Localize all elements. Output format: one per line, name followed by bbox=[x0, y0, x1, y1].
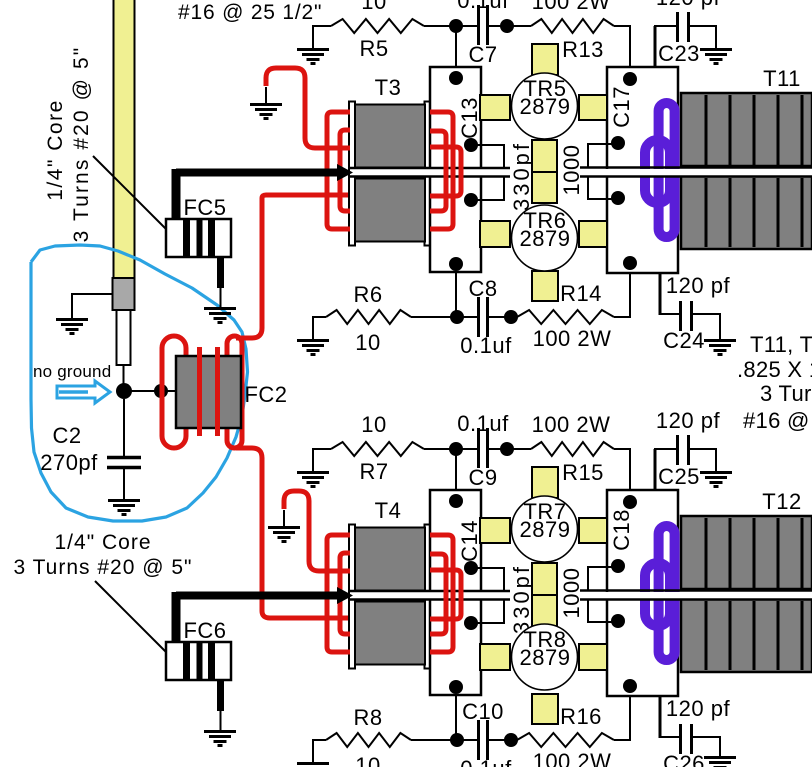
ground R7 left bbox=[297, 473, 329, 487]
capacitor C25 plates bbox=[678, 435, 689, 465]
coax braid gray section bbox=[113, 278, 135, 310]
wire hook to ground bbox=[265, 87, 267, 103]
wire bottom rail corner up bbox=[629, 273, 631, 317]
transformer T4 core upper bbox=[355, 528, 425, 591]
wire bottom rail right bbox=[614, 739, 631, 741]
red wire FC2 bottom to T4 feed bbox=[236, 448, 350, 618]
wire bottom rail mid2 bbox=[489, 739, 517, 741]
channel input top line bbox=[350, 590, 510, 593]
output winding loop A bbox=[659, 526, 675, 660]
node dot C14 gate top bbox=[464, 561, 478, 575]
ground R8 left bbox=[297, 764, 329, 767]
pad TR7 right bbox=[579, 518, 607, 543]
svg-text:120 pf: 120 pf bbox=[666, 696, 731, 721]
wire top rail left drop bbox=[312, 448, 314, 471]
pad TR7 top bbox=[532, 467, 558, 498]
transistor TR5 bbox=[512, 73, 578, 139]
svg-text:C23: C23 bbox=[658, 41, 700, 66]
transformer T3 core upper bbox=[355, 105, 425, 168]
ground C25 bbox=[700, 473, 732, 487]
pad TR8 bottom bbox=[532, 694, 558, 724]
wire C25 drop bbox=[654, 449, 657, 491]
wire C23 left bbox=[654, 25, 678, 27]
svg-text:10: 10 bbox=[361, 412, 386, 437]
FC2 winding bar 2 bbox=[215, 347, 220, 436]
node dot C14 bottom bbox=[449, 680, 463, 694]
node A junction dot bbox=[116, 383, 132, 399]
wire bottom rail left segment bbox=[313, 316, 326, 318]
inductor FC2 right winding loop bbox=[227, 336, 242, 448]
channel output top line bbox=[580, 166, 812, 169]
wire C2 to ground bbox=[123, 469, 125, 499]
wire top rail corner down bbox=[629, 449, 631, 491]
resistor R15 bbox=[531, 442, 614, 456]
wire C14 gate top bbox=[471, 568, 504, 591]
svg-text:C26: C26 bbox=[663, 751, 705, 767]
svg-text:1/4" Core: 1/4" Core bbox=[44, 99, 67, 201]
ground C23 bbox=[700, 50, 732, 64]
node dot C18 gate bottom bbox=[611, 614, 625, 628]
wire top rail left drop bbox=[312, 25, 314, 48]
svg-text:R16: R16 bbox=[560, 704, 602, 729]
svg-text:3 Turns #20 @ 5": 3 Turns #20 @ 5" bbox=[13, 556, 192, 579]
svg-text:330pf: 330pf bbox=[509, 564, 534, 634]
red wire T4 upper feed hook bbox=[284, 491, 350, 571]
channel white band output bbox=[580, 169, 812, 176]
T4 right inner winding bbox=[430, 554, 446, 634]
svg-text:120 pf: 120 pf bbox=[656, 0, 721, 10]
wire top rail corner down bbox=[629, 26, 631, 68]
wire coax shield to ground bbox=[72, 293, 113, 318]
blue hand-drawn enclosure loop bbox=[31, 245, 248, 521]
T3 right outer winding bbox=[430, 112, 453, 229]
channel output top line bbox=[580, 589, 812, 592]
svg-text:10: 10 bbox=[361, 0, 386, 14]
svg-text:R15: R15 bbox=[562, 460, 604, 485]
ground R5 left bbox=[297, 50, 329, 64]
wire C23 right bbox=[690, 26, 716, 48]
wire C25 left bbox=[654, 448, 678, 450]
wire C14 top stub bbox=[455, 449, 457, 490]
wire node A to FC2 bbox=[124, 390, 176, 392]
red wire FC2 top to T3 feed bbox=[236, 195, 350, 338]
ferrite core FC2 gray block bbox=[176, 356, 241, 428]
wire bottom rail mid2 bbox=[489, 316, 517, 318]
wire node A to C2 bbox=[123, 399, 125, 456]
capacitor C9 plates bbox=[479, 428, 488, 468]
svg-text:0.1uf: 0.1uf bbox=[457, 0, 509, 13]
T4 right outer winding bbox=[430, 535, 453, 652]
ground C2 bbox=[108, 501, 140, 515]
svg-text:.825 X 1": .825 X 1" bbox=[737, 357, 812, 382]
capacitor block C17 bbox=[607, 67, 678, 273]
resistor R7 bbox=[331, 442, 424, 456]
choke FC5 box bbox=[166, 219, 231, 257]
wire C26 drop bbox=[659, 696, 662, 738]
transformer T4 left end plate bbox=[349, 525, 355, 669]
wire bottom rail corner up bbox=[629, 696, 631, 740]
wire C24 right bbox=[693, 314, 720, 339]
transformer T4 right end plate bbox=[425, 525, 431, 669]
resistor R6 bbox=[326, 310, 411, 324]
wire bottom rail left drop bbox=[312, 316, 314, 339]
transformer T12 core stripes bbox=[706, 518, 802, 670]
wire top rail right bbox=[614, 448, 631, 450]
wire bottom rail right bbox=[614, 316, 631, 318]
channel input top line bbox=[350, 167, 510, 170]
pad center upper bbox=[532, 140, 557, 172]
wire bottom rail left drop bbox=[312, 739, 314, 762]
svg-text:R7: R7 bbox=[359, 459, 388, 484]
ground coax shield bbox=[56, 320, 88, 334]
svg-text:3 Turns: 3 Turns bbox=[760, 381, 812, 406]
transformer T11 upper core bbox=[681, 93, 812, 166]
svg-text:2879: 2879 bbox=[520, 94, 571, 119]
node dot C8 left bbox=[450, 310, 464, 324]
node dot C13 gate top bbox=[464, 138, 478, 152]
svg-text:C25: C25 bbox=[658, 464, 700, 489]
wire C26 left bbox=[659, 736, 680, 738]
node dot C17 bottom bbox=[623, 256, 637, 270]
capacitor C10 plates bbox=[479, 720, 488, 760]
pad center lower bbox=[532, 172, 557, 203]
resistor R8 bbox=[326, 733, 411, 747]
node dot C18 bottom bbox=[623, 679, 637, 693]
svg-text:R6: R6 bbox=[353, 282, 382, 307]
thick wire FC to T3 bbox=[176, 169, 340, 220]
channel white band input bbox=[350, 592, 510, 599]
channel white band input bbox=[350, 169, 510, 176]
svg-text:T4: T4 bbox=[375, 498, 402, 523]
svg-text:120 pf: 120 pf bbox=[666, 273, 731, 298]
node dot C7 left bbox=[449, 19, 463, 33]
svg-text:0.1uf: 0.1uf bbox=[460, 756, 512, 767]
wire C14 bottom stub bbox=[455, 695, 457, 740]
node dot C17 gate bottom bbox=[611, 191, 625, 205]
ground T3 hook bbox=[250, 105, 282, 119]
svg-text:C2: C2 bbox=[52, 423, 81, 448]
svg-text:C13: C13 bbox=[457, 97, 482, 139]
node dot C9 left bbox=[449, 442, 463, 456]
choke FC6 bar1 bbox=[183, 643, 190, 679]
svg-text:T11, T12: T11, T12 bbox=[750, 332, 812, 357]
callout line to FC6 bbox=[95, 581, 177, 661]
choke FC6 bar3 bbox=[208, 643, 215, 679]
wire T4 hook to ground bbox=[283, 510, 285, 526]
coax cable yellow jacket bbox=[114, 0, 135, 280]
choke FC6 bar2 bbox=[197, 643, 203, 679]
capacitor block C18 bbox=[607, 490, 678, 696]
svg-text:R8: R8 bbox=[353, 705, 382, 730]
svg-text:C10: C10 bbox=[462, 699, 504, 724]
transformer T3 core lower bbox=[355, 179, 425, 242]
svg-text:#16 @ 25 1/2": #16 @ 25 1/2" bbox=[178, 1, 322, 24]
choke FC5 ground lead bbox=[217, 257, 224, 307]
svg-text:2879: 2879 bbox=[520, 517, 571, 542]
channel output bottom line bbox=[580, 598, 812, 601]
channel output bottom line bbox=[580, 175, 812, 178]
wire bottom rail mid bbox=[411, 316, 477, 318]
wire top rail mid bbox=[424, 25, 477, 27]
wire C14 gate bottom bbox=[471, 600, 504, 623]
pad TR8 left bbox=[480, 644, 510, 670]
wire C18 gate top bbox=[588, 567, 618, 591]
T4 right final turn bbox=[430, 570, 461, 619]
node dot C18 gate top bbox=[611, 559, 625, 573]
transformer T3 right end plate bbox=[425, 102, 431, 246]
capacitor C26 plates bbox=[681, 724, 692, 754]
coax center insulation white bbox=[117, 310, 131, 365]
transformer T11 core stripes bbox=[706, 95, 802, 247]
transistor TR7 bbox=[512, 496, 578, 562]
svg-text:C17: C17 bbox=[609, 86, 634, 128]
thick wire FC to T4 bbox=[176, 592, 340, 643]
ground FC5 bbox=[204, 309, 236, 323]
pad center upper bbox=[532, 563, 557, 595]
resistor R16 bbox=[517, 733, 614, 747]
wire C13 gate top bbox=[471, 145, 504, 168]
node dot C14 top bbox=[449, 494, 463, 508]
transformer T3 left end plate bbox=[349, 102, 355, 246]
wire C25 right bbox=[690, 449, 716, 471]
ground C24 bbox=[704, 341, 736, 355]
wire C24 drop bbox=[659, 273, 662, 315]
node dot C14 gate bottom bbox=[464, 616, 478, 630]
svg-text:10: 10 bbox=[355, 330, 380, 355]
choke FC6 box bbox=[166, 642, 231, 680]
svg-text:no ground: no ground bbox=[33, 362, 111, 381]
capacitor C24 plates bbox=[681, 301, 692, 331]
node dot C13 top bbox=[449, 71, 463, 85]
choke FC5 bar3 bbox=[208, 220, 215, 256]
red wire T3 upper feed hook bbox=[266, 68, 350, 148]
resistor R13 bbox=[531, 19, 614, 33]
T4 left outer winding bbox=[327, 535, 350, 652]
svg-text:2879: 2879 bbox=[520, 645, 571, 670]
choke FC5 bar2 bbox=[197, 220, 203, 256]
ground T4 hook bbox=[268, 528, 300, 542]
ground C26 bbox=[704, 758, 736, 767]
svg-text:1/4" Core: 1/4" Core bbox=[55, 531, 152, 554]
wire top rail left segment bbox=[313, 448, 331, 450]
pad TR6 right bbox=[579, 221, 607, 247]
svg-text:1000: 1000 bbox=[559, 568, 584, 619]
cyan pointer arrow bbox=[57, 381, 110, 403]
capacitor block C13 bbox=[430, 67, 481, 272]
wire C17 gate bottom bbox=[588, 176, 618, 199]
wire top rail left segment bbox=[313, 25, 331, 27]
node dot C13 gate bottom bbox=[464, 193, 478, 207]
T4 left inner winding bbox=[340, 553, 350, 634]
wire coax center to node A bbox=[123, 365, 125, 385]
node dot C9 right bbox=[500, 442, 514, 456]
svg-text:FC6: FC6 bbox=[183, 618, 226, 643]
wire C13 top stub bbox=[455, 26, 457, 67]
node dot C10 left bbox=[450, 733, 464, 747]
T3 right inner winding bbox=[430, 131, 446, 211]
wire top rail mid2 bbox=[489, 448, 531, 450]
arrowhead at T3 bbox=[337, 164, 353, 181]
node dot C13 bottom bbox=[449, 257, 463, 271]
T3 left outer winding bbox=[327, 112, 350, 229]
capacitor C8 plates bbox=[479, 297, 488, 337]
svg-text:3 Turns #20 @ 5": 3 Turns #20 @ 5" bbox=[70, 46, 93, 243]
arrowhead at T4 bbox=[337, 587, 353, 604]
pad TR7 left bbox=[480, 518, 510, 543]
svg-text:0.1uf: 0.1uf bbox=[460, 333, 512, 358]
T3 left inner winding bbox=[340, 130, 350, 211]
svg-text:T11: T11 bbox=[763, 66, 801, 91]
channel input bottom line bbox=[350, 598, 510, 601]
svg-text:#16 @ 25: #16 @ 25 bbox=[743, 408, 812, 433]
node dot C17 gate top bbox=[611, 136, 625, 150]
transistor TR8 bbox=[512, 624, 578, 690]
svg-text:2879: 2879 bbox=[520, 226, 571, 251]
svg-text:FC2: FC2 bbox=[244, 382, 287, 407]
output winding loop B bbox=[645, 140, 670, 203]
node junction dot at FC2 bbox=[154, 384, 168, 398]
transistor TR6 bbox=[512, 205, 578, 271]
wire C18 gate bottom bbox=[588, 599, 618, 622]
wire C17 gate top bbox=[588, 144, 618, 168]
choke FC6 ground lead bbox=[217, 680, 224, 730]
node dot C18 top bbox=[623, 495, 637, 509]
pad TR5 top bbox=[532, 44, 558, 75]
pad TR8 right bbox=[579, 644, 607, 670]
transformer T11 lower core bbox=[681, 176, 812, 249]
svg-text:330pf: 330pf bbox=[509, 141, 534, 211]
svg-text:FC5: FC5 bbox=[183, 195, 226, 220]
svg-text:100 2W: 100 2W bbox=[532, 0, 611, 14]
inductor FC2 left winding loop bbox=[162, 336, 186, 448]
node dot C17 top bbox=[623, 72, 637, 86]
node dot C8 right bbox=[504, 310, 518, 324]
svg-text:100 2W: 100 2W bbox=[533, 749, 612, 767]
T3 right final turn bbox=[430, 147, 461, 196]
svg-text:C14: C14 bbox=[457, 520, 482, 562]
wire C26 right bbox=[693, 737, 720, 756]
pad TR5 right bbox=[579, 95, 607, 120]
resistor R5 bbox=[331, 19, 424, 33]
svg-text:R13: R13 bbox=[562, 37, 604, 62]
capacitor C7 plates bbox=[479, 5, 488, 45]
ground FC6 bbox=[204, 732, 236, 746]
pad TR6 bottom bbox=[532, 271, 558, 301]
resistor R14 bbox=[517, 310, 614, 324]
choke FC5 bar1 bbox=[183, 220, 190, 256]
pad TR5 left bbox=[480, 95, 510, 120]
wire C24 left bbox=[659, 313, 680, 315]
callout line to FC5 bbox=[93, 156, 176, 237]
transformer T4 core lower bbox=[355, 602, 425, 665]
svg-text:100 2W: 100 2W bbox=[532, 412, 611, 437]
pad TR6 left bbox=[480, 221, 510, 247]
capacitor block C14 bbox=[430, 490, 481, 695]
svg-text:T3: T3 bbox=[375, 75, 402, 100]
wire C13 gate bottom bbox=[471, 177, 504, 200]
channel white band output bbox=[580, 592, 812, 599]
svg-text:C9: C9 bbox=[468, 465, 497, 490]
svg-text:120 pf: 120 pf bbox=[656, 408, 721, 433]
svg-text:C8: C8 bbox=[468, 276, 497, 301]
svg-text:10: 10 bbox=[355, 753, 380, 767]
svg-text:T12: T12 bbox=[762, 489, 801, 514]
svg-text:C24: C24 bbox=[663, 328, 705, 353]
wire C23 drop bbox=[654, 26, 657, 68]
wire bottom rail left segment bbox=[313, 739, 326, 741]
channel input bottom line bbox=[350, 175, 510, 178]
svg-text:R5: R5 bbox=[359, 36, 388, 61]
wire C13 bottom stub bbox=[455, 272, 457, 317]
svg-text:C7: C7 bbox=[468, 42, 497, 67]
svg-text:1000: 1000 bbox=[559, 145, 584, 196]
pad center lower bbox=[532, 595, 557, 626]
node dot C10 right bbox=[504, 733, 518, 747]
output winding loop A bbox=[659, 103, 675, 237]
svg-text:270pf: 270pf bbox=[40, 450, 98, 475]
svg-text:100 2W: 100 2W bbox=[533, 326, 612, 351]
capacitor C2 plates bbox=[107, 458, 141, 468]
capacitor C23 plates bbox=[678, 12, 689, 42]
transformer T12 upper core bbox=[681, 516, 812, 589]
wire bottom rail mid bbox=[411, 739, 477, 741]
wire top rail right bbox=[614, 25, 631, 27]
node dot C7 right bbox=[500, 19, 514, 33]
wire top rail mid bbox=[424, 448, 477, 450]
svg-text:C18: C18 bbox=[609, 509, 634, 551]
ground R6 left bbox=[297, 341, 329, 355]
FC2 winding bar 1 bbox=[197, 347, 202, 436]
output winding loop B bbox=[645, 563, 670, 626]
svg-text:R14: R14 bbox=[560, 281, 602, 306]
svg-text:0.1uf: 0.1uf bbox=[457, 411, 509, 436]
wire top rail mid2 bbox=[489, 25, 531, 27]
transformer T12 lower core bbox=[681, 599, 812, 672]
